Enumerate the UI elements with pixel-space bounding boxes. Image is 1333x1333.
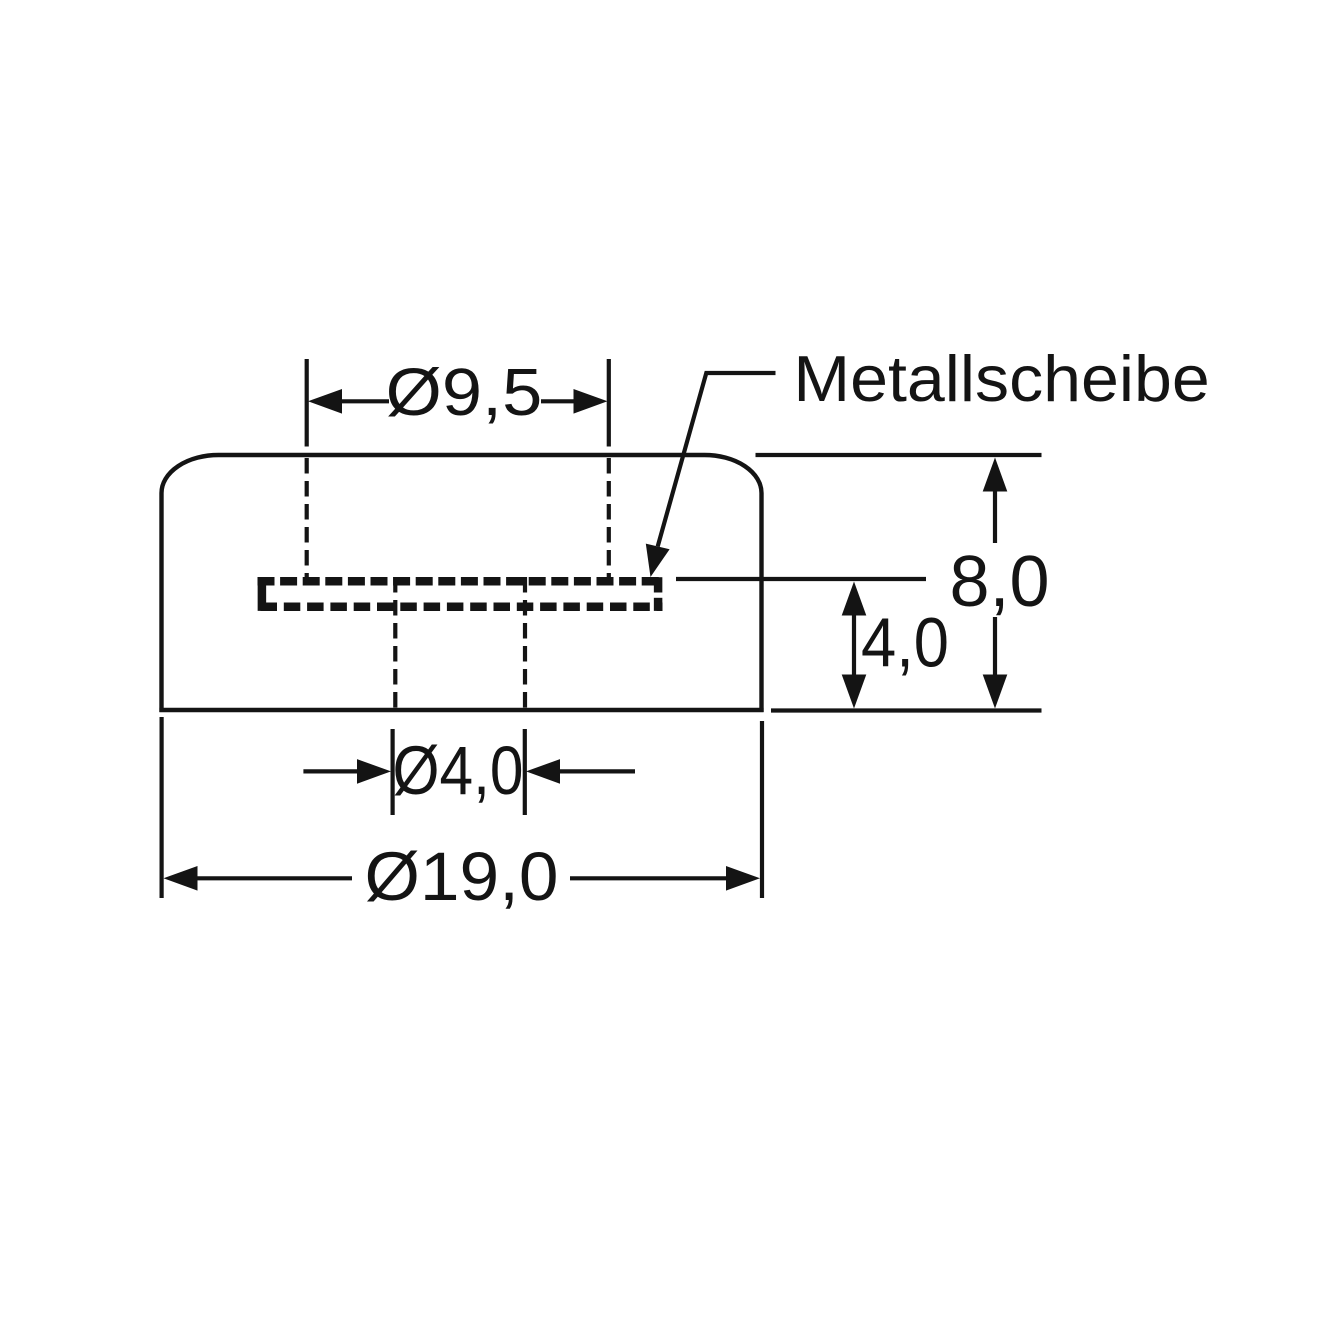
8,0 arrow down (983, 675, 1008, 709)
body bottom line (159, 708, 763, 712)
Ø4,0 right extension line below body (523, 729, 527, 815)
washer bottom edge dashed (258, 603, 663, 612)
Ø19,0 arrow left (164, 866, 198, 891)
bottom right extension line (771, 708, 1042, 712)
washer level extension line (676, 577, 926, 581)
leader arrowhead (646, 544, 670, 577)
Ø4,0 arrow right (pointing left) (526, 759, 560, 784)
washer top edge dashed (258, 577, 663, 586)
Ø9,5 dimension line right segment (541, 399, 575, 403)
Ø4,0 dimension tail left (303, 769, 360, 773)
washer right end top stub (654, 577, 663, 592)
washer right end bottom stub (654, 598, 663, 611)
Ø9,5 dimension line left segment (341, 399, 389, 403)
Ø4,0 left extension line below body (391, 729, 395, 815)
svg-text:Ø19,0: Ø19,0 (365, 839, 559, 915)
svg-text:Ø9,5: Ø9,5 (386, 356, 543, 430)
8,0 dimension line lower segment (993, 617, 997, 677)
4,0 dimension line segment (852, 614, 856, 676)
4,0 arrow up (842, 582, 867, 616)
Ø9,5 arrow right (574, 389, 608, 414)
body outline of rubber foot (162, 455, 762, 712)
Ø4,0 dimension tail right (558, 769, 635, 773)
Ø19,0 arrow right (726, 866, 760, 891)
Ø19,0 dimension line left segment (196, 876, 352, 880)
4,0 arrow down (842, 675, 867, 709)
8,0 dimension line upper segment (993, 490, 997, 543)
right hidden edge dashed line (Ø9,5) (607, 458, 611, 577)
right hole dashed line (Ø4,0) (523, 577, 527, 710)
8,0 arrow up (983, 458, 1008, 492)
left hidden edge dashed line (Ø9,5) (305, 458, 309, 577)
washer left end bar (258, 577, 267, 611)
Ø19,0 left extension line (160, 717, 164, 898)
top right extension line (756, 453, 1042, 457)
Ø9,5 arrow left (308, 389, 342, 414)
Ø19,0 dimension line right segment (570, 876, 727, 880)
Ø4,0 arrow left (pointing right) (357, 759, 391, 784)
svg-text:4,0: 4,0 (861, 604, 949, 682)
leader line to washer (658, 373, 776, 546)
Ø19,0 right extension line (760, 721, 764, 898)
svg-text:8,0: 8,0 (949, 542, 1049, 622)
left extension line (solid, Ø9,5) (305, 359, 309, 447)
left hole dashed line (Ø4,0) (393, 577, 397, 710)
right extension line (solid, Ø9,5) (607, 359, 611, 447)
svg-text:Metallscheibe: Metallscheibe (793, 342, 1209, 415)
svg-text:Ø4,0: Ø4,0 (393, 732, 524, 809)
